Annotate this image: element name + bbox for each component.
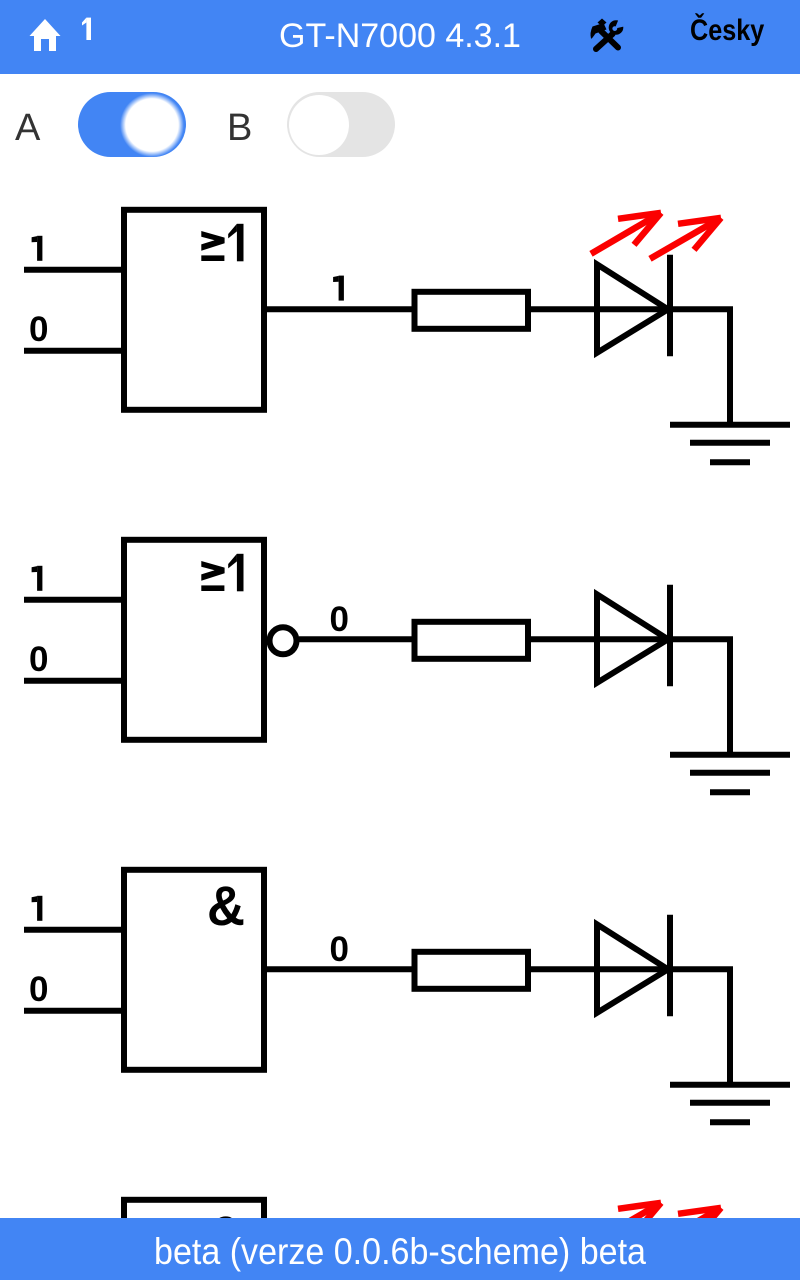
svg-text:&: & — [207, 874, 245, 937]
LED D3 — [597, 915, 670, 1017]
wire input B to G1 — [24, 348, 124, 354]
wire input A to G4 — [24, 1257, 124, 1263]
top app bar — [0, 0, 800, 74]
wire LED D3 cathode to ground — [670, 969, 730, 1085]
LED D4 light emission arrows — [591, 1203, 721, 1249]
input value label 1 — [32, 896, 43, 921]
wire G3 output to resistor R3 — [264, 966, 415, 972]
resistor R2 — [415, 622, 529, 659]
svg-text:0: 0 — [330, 600, 349, 639]
home icon — [28, 17, 62, 52]
wire input B to G2 — [24, 678, 124, 684]
output value label 1 — [333, 276, 344, 301]
NAND gate G4 — [124, 1200, 264, 1280]
page number 1 — [78, 14, 96, 44]
LED D1 — [597, 255, 670, 356]
tools icon — [589, 18, 625, 52]
input value label 1 — [32, 566, 43, 591]
input value label 1 — [32, 1226, 43, 1251]
input value label 1 — [32, 236, 43, 261]
LED D1 light emission arrows — [591, 213, 721, 259]
svg-text:0: 0 — [29, 970, 48, 1009]
title — [0, 17, 800, 56]
wire resistor R3 to LED D3 — [528, 966, 668, 972]
wire input A to G3 — [24, 927, 124, 933]
wire resistor R2 to LED D2 — [528, 636, 668, 642]
wire input A to G1 — [24, 267, 124, 273]
bottom status bar — [0, 1218, 800, 1280]
resistor R3 — [415, 952, 529, 989]
NOR gate G2 — [124, 540, 264, 740]
resistor R1 — [415, 292, 529, 329]
svg-text:0: 0 — [29, 640, 48, 679]
ground — [670, 1085, 790, 1123]
ground — [670, 425, 790, 463]
input switches row — [0, 0, 800, 1]
switch B (off) — [287, 92, 395, 157]
ground — [670, 755, 790, 793]
LED D2 — [597, 585, 670, 687]
svg-text:0: 0 — [29, 310, 48, 349]
OR gate G1 — [124, 210, 264, 410]
wire G2 output to resistor R2 — [299, 636, 415, 642]
switch label A — [15, 107, 40, 150]
wire G1 output to resistor R1 — [264, 306, 415, 312]
wire LED D2 cathode to ground — [670, 639, 730, 755]
language label — [690, 14, 764, 48]
inversion bubble on G2 output — [270, 627, 297, 654]
wire input A to G2 — [24, 597, 124, 603]
switch label B — [227, 107, 252, 150]
svg-text:0: 0 — [330, 930, 349, 969]
AND gate G3 — [124, 870, 264, 1070]
switch A (on) — [78, 92, 186, 157]
wire resistor R1 to LED D1 — [528, 306, 668, 312]
LED D4 — [597, 1245, 670, 1280]
wire LED D1 cathode to ground — [670, 309, 730, 425]
wire input B to G3 — [24, 1008, 124, 1014]
